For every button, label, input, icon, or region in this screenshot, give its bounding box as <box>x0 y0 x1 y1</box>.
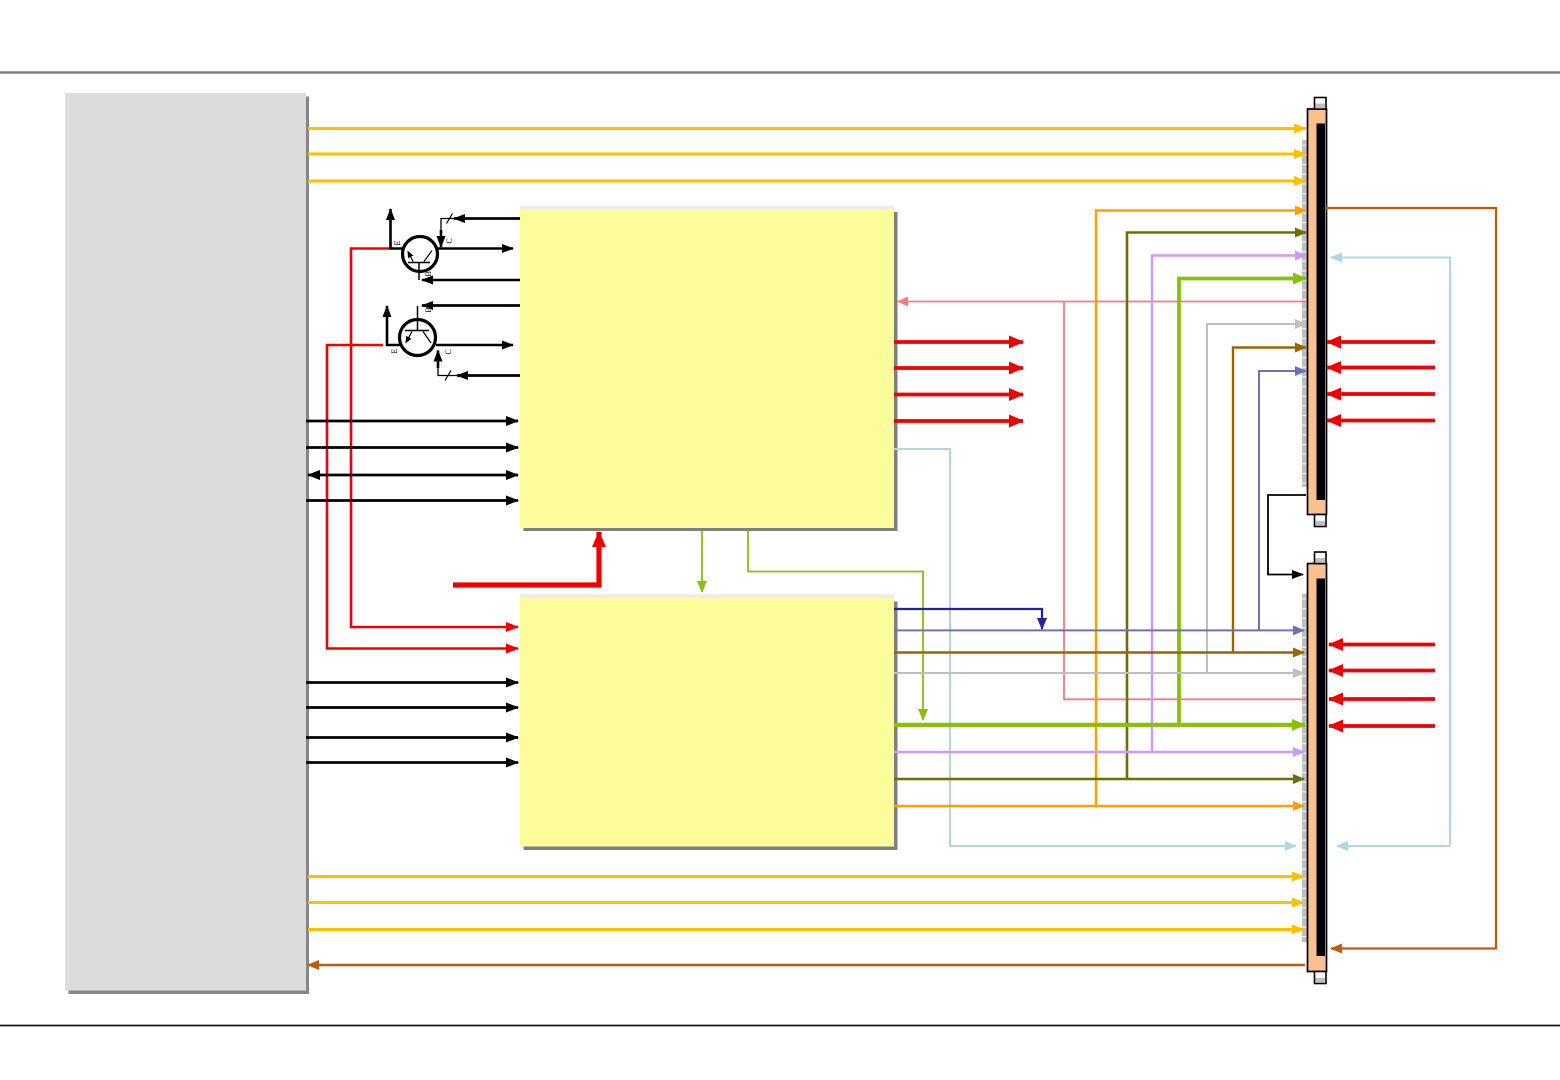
svg-text:E: E <box>390 348 399 353</box>
svg-text:C: C <box>444 349 453 354</box>
svg-text:E: E <box>393 240 402 245</box>
svg-text:C: C <box>445 238 454 243</box>
svg-text:B: B <box>424 271 433 276</box>
svg-text:B: B <box>424 307 433 312</box>
